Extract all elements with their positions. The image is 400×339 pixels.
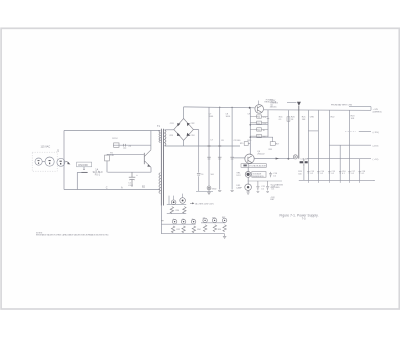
battery line — [349, 107, 371, 111]
svg-text:CR3: CR3 — [169, 135, 173, 137]
test point TP5 — [191, 220, 195, 224]
svg-text:9.1V: 9.1V — [236, 175, 241, 177]
svg-text:R16: R16 — [279, 117, 283, 119]
regulator divider chain vertical — [249, 108, 251, 155]
test point TP2 — [180, 198, 186, 204]
svg-text:( +5V): ( +5V) — [373, 159, 379, 161]
arrow from jack — [65, 161, 68, 162]
svg-text:R36: R36 — [218, 229, 221, 231]
transformer T1 core — [161, 129, 163, 206]
wire to triangle — [287, 102, 296, 104]
switch S1 contact bar — [81, 171, 87, 173]
potentiometer R25 — [293, 155, 297, 159]
transistor Q6 — [245, 154, 254, 163]
test point labels — [172, 217, 226, 221]
svg-text:0.1: 0.1 — [351, 173, 354, 175]
lamp DS1 — [245, 184, 252, 191]
divider right vertical — [267, 110, 269, 137]
svg-text:R32: R32 — [177, 229, 180, 231]
svg-text:500: 500 — [298, 174, 301, 176]
svg-text:560: 560 — [263, 137, 266, 139]
resistor R31 zigzag — [183, 207, 186, 214]
svg-text:(UNREG): (UNREG) — [373, 111, 382, 113]
svg-text:R12: R12 — [257, 123, 260, 125]
svg-text:0.1: 0.1 — [342, 173, 345, 175]
svg-text:C15: C15 — [331, 171, 335, 173]
tick on right vertical — [267, 118, 269, 120]
jack J1 contacts — [60, 161, 62, 165]
svg-text:FU-1: FU-1 — [95, 174, 101, 176]
wire: Q6 base lead — [234, 157, 246, 159]
svg-text:C18: C18 — [362, 171, 366, 173]
resistor R13 — [250, 128, 268, 131]
bottom bus — [299, 179, 374, 181]
wire: main DC rail left — [184, 106, 255, 109]
plug P1 body — [35, 157, 54, 166]
svg-text:0.1: 0.1 — [362, 173, 365, 175]
junction dots on divider — [250, 124, 252, 126]
resistor R32 — [171, 226, 174, 233]
transistor Q5 pass — [255, 105, 264, 114]
wire: bridge right lead — [193, 130, 198, 147]
capacitor C12 — [266, 181, 269, 190]
wire: switch branch — [77, 167, 87, 190]
svg-text:C9 500: C9 500 — [234, 140, 242, 142]
diode CR4 — [187, 133, 191, 136]
svg-text:C19 100: C19 100 — [300, 159, 307, 161]
capacitor C1 electrolytic — [129, 172, 136, 187]
svg-text:115 VAC: 115 VAC — [41, 146, 51, 149]
test point row 2 — [161, 223, 225, 224]
resistor R1 (osc bias) — [105, 155, 110, 161]
wire: osc emitter/cap line — [108, 171, 152, 173]
capacitor C7 dropline — [208, 107, 210, 186]
svg-text:(+15V): (+15V) — [373, 132, 380, 134]
svg-text:0.1: 0.1 — [310, 173, 313, 175]
cluster ground drop — [303, 166, 305, 180]
ground at row end — [223, 234, 226, 239]
svg-text:-24V: -24V — [270, 197, 275, 199]
svg-text:+24V: +24V — [270, 100, 275, 102]
svg-text:C13: C13 — [310, 171, 314, 173]
capacitor C10 — [269, 172, 272, 177]
wire: bridge top lead — [183, 107, 185, 119]
ground under lamp — [246, 191, 249, 195]
test point TP6 — [203, 218, 207, 222]
plug pin dots — [38, 160, 51, 164]
transformer T1 secondary winding — [165, 130, 167, 146]
svg-text:C2: C2 — [129, 146, 131, 148]
svg-text:7-5: 7-5 — [302, 216, 306, 220]
svg-text:R11: R11 — [257, 117, 260, 119]
svg-text:R14: R14 — [257, 136, 260, 138]
diode CR3 — [177, 133, 181, 136]
resistor R35 — [203, 225, 206, 232]
resistor R20 dropline — [287, 110, 289, 159]
resistor R17 right — [268, 137, 273, 141]
svg-text:REFERENCE: REFERENCE — [252, 176, 264, 178]
svg-text:Figure 7-1. Power Supply.: Figure 7-1. Power Supply. — [280, 214, 319, 218]
wire: osc R1 leads — [107, 154, 144, 172]
svg-text:R34: R34 — [197, 229, 200, 231]
test point TP7 — [212, 218, 216, 222]
resistor R30 zigzag — [170, 207, 173, 214]
wire: bridge bottom lead — [183, 140, 185, 146]
svg-text:CR5: CR5 — [268, 149, 272, 151]
voltage reference box — [252, 172, 266, 178]
wire -15V — [329, 144, 371, 146]
svg-text:10K: 10K — [302, 119, 306, 121]
transformer T1 primary winding bottom — [159, 173, 161, 194]
ground under C7 — [207, 190, 210, 195]
svg-text:GND: GND — [212, 188, 217, 190]
wire: primary loop top rail — [64, 130, 160, 132]
svg-text:R15: R15 — [240, 143, 243, 145]
ground under C11 C12 — [257, 192, 270, 193]
resistor R33 — [182, 226, 185, 233]
capacitor C11 — [256, 181, 259, 190]
svg-text:10K: 10K — [110, 155, 114, 157]
test point TP4 — [181, 220, 185, 224]
svg-text:UNREG: UNREG — [270, 103, 278, 105]
resistor R11 — [250, 115, 268, 118]
wire +15V — [359, 131, 371, 133]
capacitor C8 dropline — [219, 107, 221, 189]
transistor Q1 — [144, 150, 151, 168]
bridge rectifier diamond — [174, 119, 194, 141]
diode CR1 — [177, 123, 180, 126]
svg-text:C16: C16 — [342, 171, 346, 173]
wire: main DC rail right of Q5 — [264, 109, 371, 112]
transformer T1 primary winding top — [159, 131, 161, 143]
wire: Q1 emitter down — [150, 167, 152, 172]
wire +5V line — [307, 158, 371, 160]
Q5 top stub — [258, 101, 260, 105]
tick on transformer drop — [161, 220, 164, 222]
wire: secondary top tap to bridge — [165, 129, 174, 131]
test point TP1 — [171, 200, 176, 205]
dropline C14 — [317, 110, 319, 180]
svg-text:R17: R17 — [276, 144, 279, 146]
svg-text:+ 24V: + 24V — [373, 109, 379, 111]
dropline to -15V — [328, 110, 330, 180]
resistor R14 — [250, 134, 268, 137]
svg-text:R30: R30 — [176, 210, 180, 212]
junction triangle — [297, 102, 301, 106]
resistor R36 — [213, 225, 216, 232]
C7 can — [207, 186, 211, 190]
capacitor C19 polarized plates — [300, 161, 304, 163]
svg-text:0.1: 0.1 — [331, 173, 334, 175]
svg-text:NOTES:: NOTES: — [36, 232, 43, 234]
svg-text:0.1: 0.1 — [320, 173, 323, 175]
svg-text:R13: R13 — [257, 130, 260, 132]
wire: Q6 emitter vertical — [247, 163, 249, 185]
wire: taps to test row — [169, 194, 183, 205]
plug P1 dashed enclosure — [32, 152, 57, 171]
wire: Q1 collector up — [150, 131, 152, 150]
test point TP8 — [222, 218, 226, 222]
svg-text:500: 500 — [211, 174, 214, 176]
note arrow text — [190, 202, 192, 204]
wire: primary loop left vertical — [63, 131, 65, 190]
svg-text:2N3055: 2N3055 — [270, 106, 277, 108]
test point TP3 — [172, 220, 176, 224]
svg-text:GROUND: GROUND — [270, 187, 280, 189]
svg-text:R2 1K: R2 1K — [112, 138, 118, 140]
resistor R15 left stub — [248, 143, 250, 145]
resistor R2 (osc) — [114, 143, 119, 147]
bypass capacitor row symbols — [307, 172, 361, 173]
zener VR1 — [245, 172, 251, 178]
resistor R37 — [223, 225, 226, 232]
capacitor C9 dropline — [231, 107, 233, 189]
wire: osc feedback line — [113, 144, 151, 146]
svg-text:(-15V): (-15V) — [373, 146, 379, 148]
junction ticks on secondary bus — [208, 145, 222, 147]
svg-text:C17: C17 — [351, 171, 355, 173]
wire: secondary lower tap bus under bridge — [165, 145, 240, 147]
svg-text:C: C — [106, 187, 108, 190]
dropline C13 — [307, 110, 309, 180]
dropline C16 — [359, 159, 361, 181]
resistor R12 — [250, 121, 268, 124]
wire: primary loop bottom rail — [64, 189, 160, 191]
dropline R23 — [349, 110, 351, 180]
svg-text:C6: C6 — [201, 174, 203, 176]
svg-text:0.1: 0.1 — [279, 119, 282, 121]
junction dot output line — [288, 158, 290, 160]
junction dot — [249, 107, 251, 109]
wire: +12V output line — [254, 157, 294, 159]
arrow on output line — [276, 158, 279, 160]
svg-text:47uF: 47uF — [128, 185, 133, 187]
svg-text:SLO-BLO: SLO-BLO — [93, 172, 103, 174]
wire: transformer bottom vertical — [160, 206, 162, 234]
dark feed line — [298, 106, 300, 159]
svg-text:10K: 10K — [351, 118, 355, 120]
switch S1 label box ON/OFF — [77, 162, 92, 167]
svg-text:CR2: CR2 — [191, 123, 195, 125]
svg-text:ON/OFF: ON/OFF — [78, 163, 89, 167]
voltage adjust box — [241, 164, 266, 168]
tick — [373, 179, 375, 181]
ladder rung wires — [250, 125, 268, 138]
capacitor C6 dropline — [198, 146, 200, 191]
svg-text:1A: 1A — [95, 169, 98, 172]
diode CR2 — [187, 123, 190, 126]
svg-text:CR1: CR1 — [170, 123, 174, 125]
dropline c15 — [339, 145, 341, 180]
jack J1 — [57, 158, 65, 166]
ground rail segment — [196, 190, 213, 192]
wire: T1 top rail stub — [158, 130, 160, 132]
test point row 1 — [167, 203, 186, 205]
svg-text:2N2222: 2N2222 — [257, 154, 265, 156]
link — [308, 130, 318, 132]
resistor R34 — [192, 226, 195, 233]
